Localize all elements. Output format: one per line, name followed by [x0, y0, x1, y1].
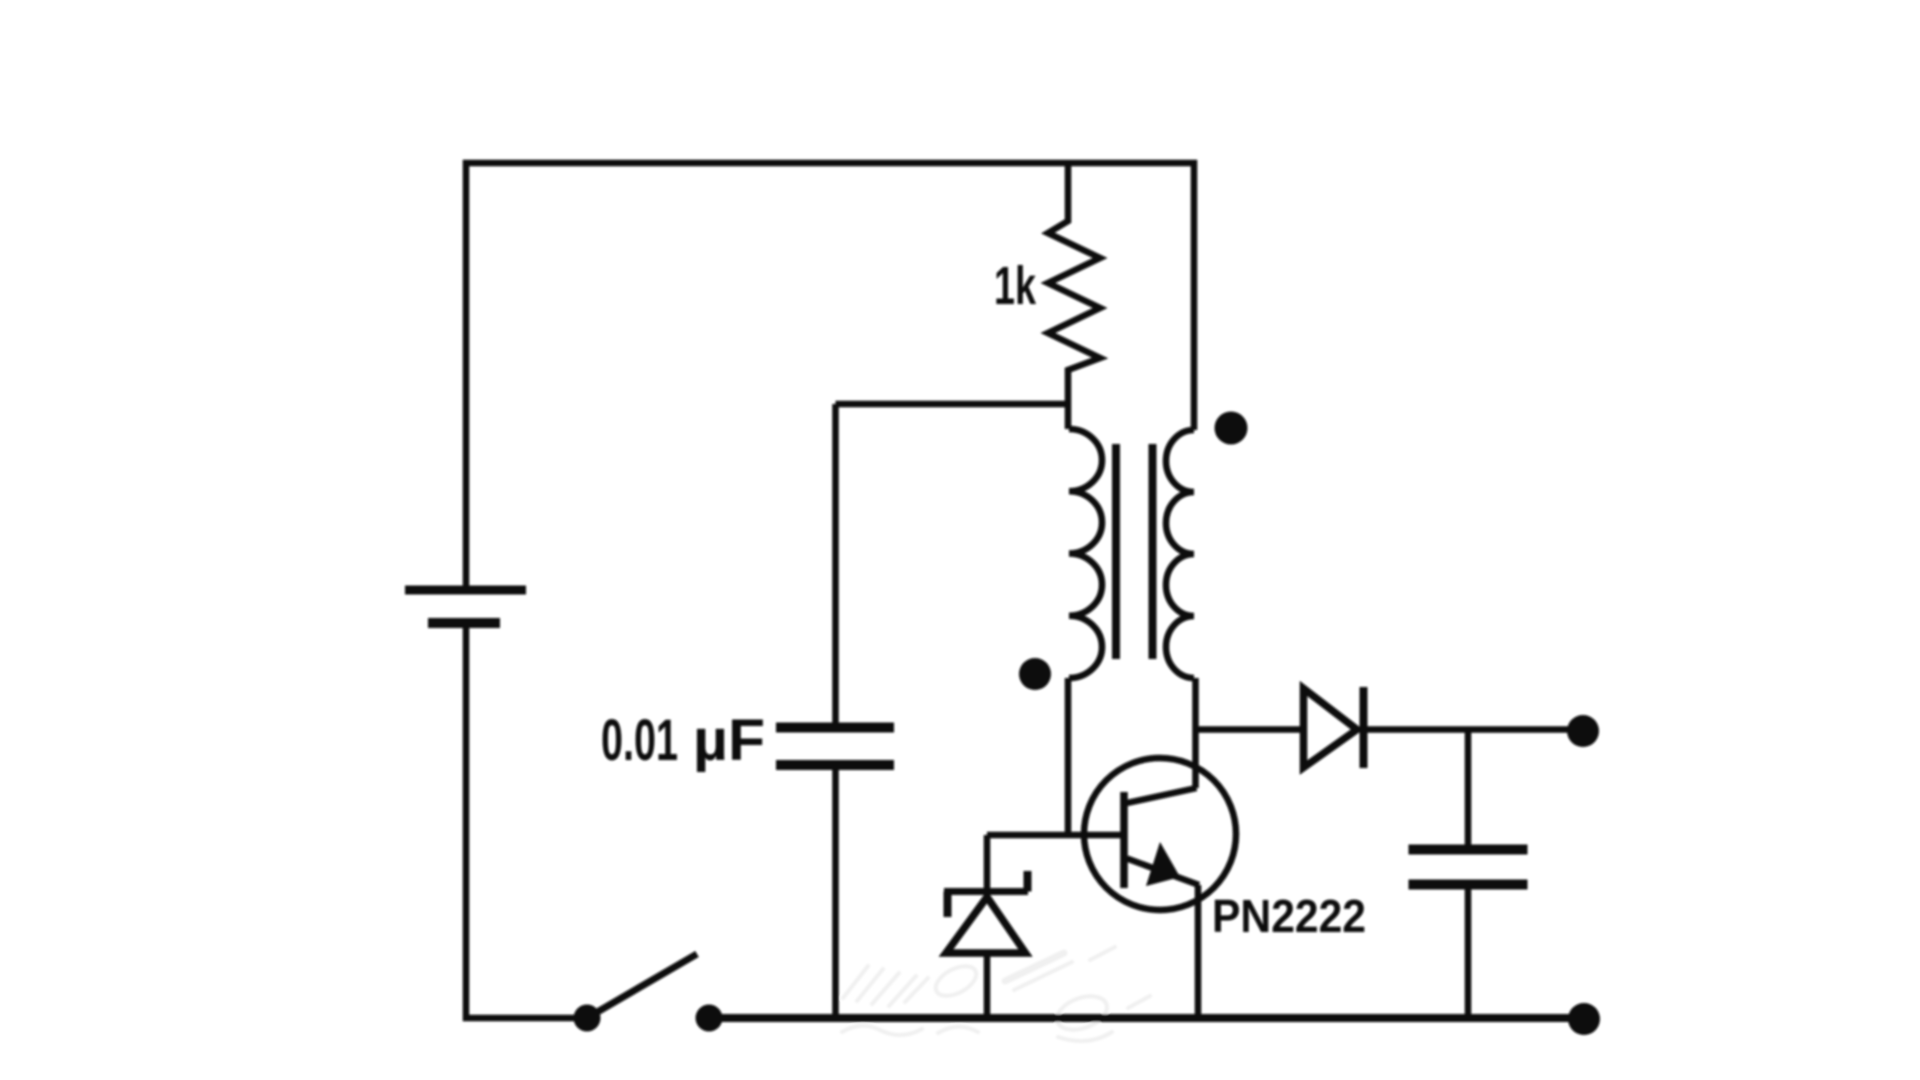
- svg-text:PN2222: PN2222: [1212, 890, 1366, 942]
- svg-text:1k: 1k: [994, 256, 1037, 316]
- svg-text:µF: µF: [693, 708, 765, 773]
- svg-text:0.01: 0.01: [601, 708, 678, 773]
